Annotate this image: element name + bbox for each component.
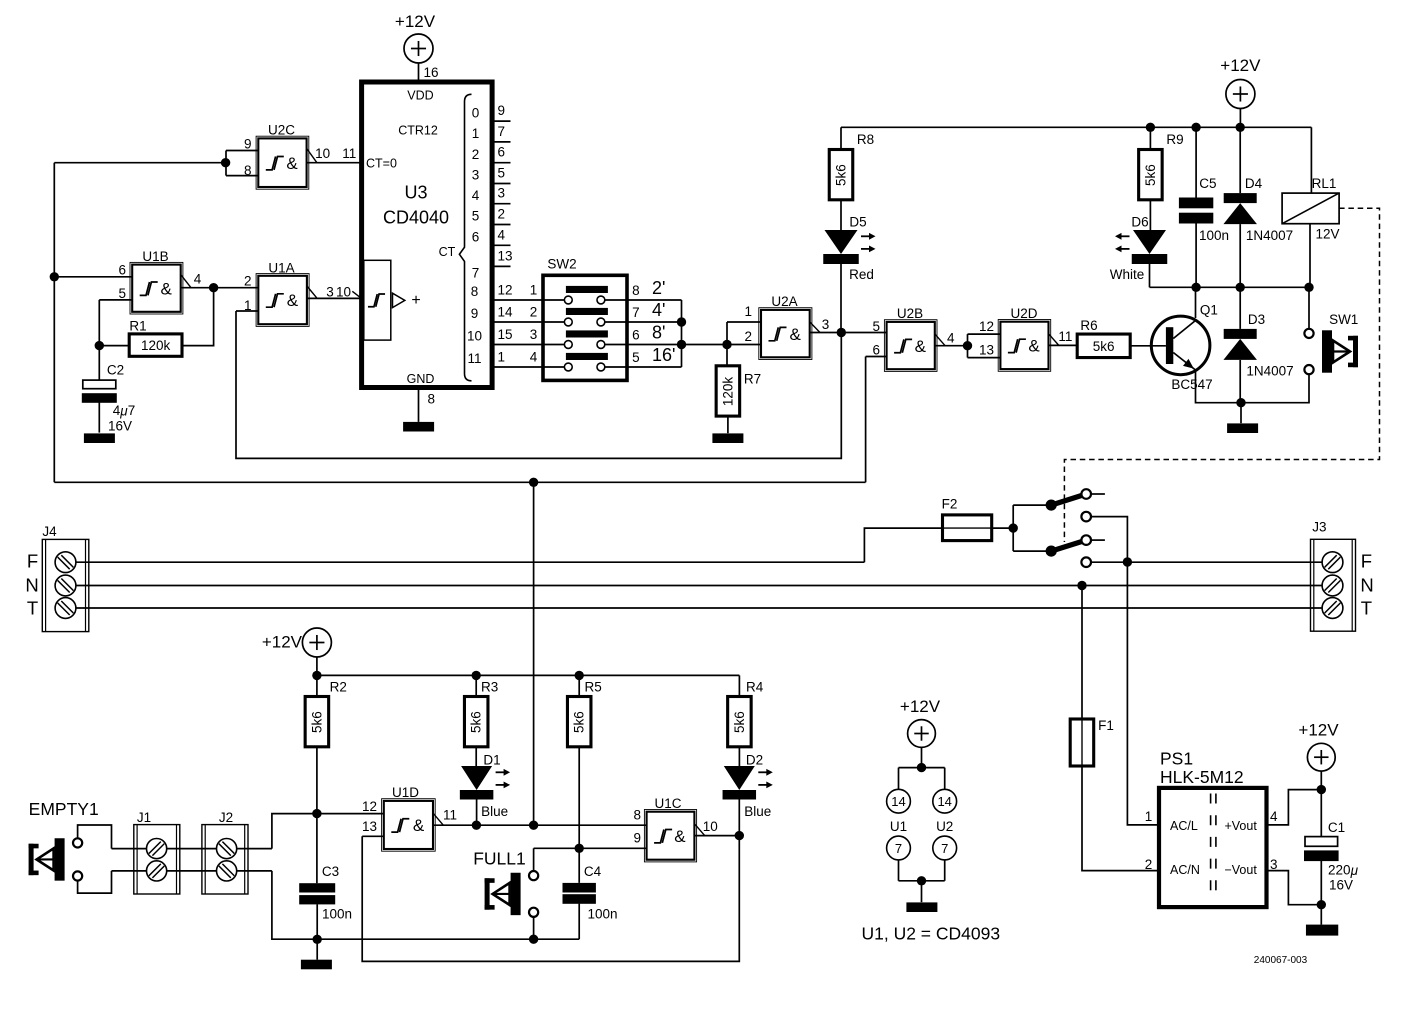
svg-text:16V: 16V [1329, 878, 1353, 893]
svg-text:&: & [286, 154, 298, 173]
svg-text:R6: R6 [1080, 318, 1097, 333]
svg-text:7: 7 [632, 305, 640, 320]
svg-text:8': 8' [652, 322, 665, 342]
svg-text:100n: 100n [1199, 228, 1229, 243]
svg-text:10: 10 [315, 146, 330, 161]
svg-text:7: 7 [941, 841, 948, 856]
svg-text:CD4040: CD4040 [383, 208, 449, 228]
svg-text:+12V: +12V [262, 633, 303, 652]
svg-text:16': 16' [652, 345, 675, 365]
svg-text:8: 8 [471, 284, 479, 299]
svg-text:D2: D2 [746, 753, 763, 768]
svg-text:U2C: U2C [268, 123, 295, 138]
svg-text:AC/L: AC/L [1170, 819, 1198, 833]
svg-text:GND: GND [407, 372, 435, 386]
svg-text:2': 2' [652, 278, 665, 298]
svg-text:12: 12 [498, 283, 513, 298]
svg-text:5k6: 5k6 [309, 711, 324, 733]
svg-text:4: 4 [472, 188, 480, 203]
svg-text:4: 4 [947, 330, 955, 345]
svg-text:12: 12 [362, 799, 377, 814]
svg-text:D4: D4 [1245, 176, 1263, 191]
svg-text:2: 2 [472, 147, 480, 162]
svg-text:4: 4 [194, 272, 202, 287]
svg-text:5: 5 [872, 319, 880, 334]
svg-text:D1: D1 [483, 753, 500, 768]
svg-text:1: 1 [244, 298, 252, 313]
svg-text:1: 1 [744, 304, 752, 319]
svg-text:&: & [287, 291, 299, 310]
svg-text:&: & [915, 337, 927, 356]
svg-text:9: 9 [498, 103, 506, 118]
svg-text:AC/N: AC/N [1170, 863, 1200, 877]
svg-text:3: 3 [530, 327, 538, 342]
svg-text:U1: U1 [890, 819, 907, 834]
svg-text:2: 2 [744, 329, 752, 344]
svg-text:15: 15 [498, 327, 513, 342]
svg-text:D6: D6 [1131, 214, 1148, 229]
svg-text:7: 7 [895, 841, 902, 856]
svg-text:R4: R4 [746, 679, 764, 694]
svg-text:+: + [411, 292, 420, 309]
svg-text:CT=0: CT=0 [366, 156, 397, 170]
svg-text:3: 3 [1270, 857, 1278, 872]
svg-text:VDD: VDD [407, 89, 433, 103]
svg-text:&: & [1028, 337, 1040, 356]
svg-text:11: 11 [443, 807, 457, 822]
svg-text:16V: 16V [108, 419, 132, 434]
svg-text:6: 6 [498, 145, 506, 160]
svg-text:J4: J4 [42, 524, 57, 539]
svg-text:14: 14 [891, 794, 905, 809]
svg-text:4μ7: 4μ7 [113, 403, 135, 418]
svg-text:6: 6 [872, 343, 880, 358]
svg-text:BC547: BC547 [1171, 377, 1212, 392]
svg-text:U3: U3 [404, 182, 427, 202]
svg-text:5k6: 5k6 [1093, 339, 1115, 354]
svg-text:Blue: Blue [744, 804, 771, 819]
svg-text:2: 2 [498, 207, 506, 222]
svg-text:U1A: U1A [268, 260, 294, 275]
svg-text:White: White [1110, 267, 1145, 282]
svg-text:U1D: U1D [392, 785, 419, 800]
svg-text:CT: CT [439, 245, 456, 259]
svg-text:16: 16 [423, 65, 438, 80]
svg-text:T: T [27, 597, 38, 618]
svg-text:14: 14 [498, 305, 514, 320]
svg-text:C4: C4 [584, 864, 602, 879]
svg-text:PS1: PS1 [1160, 748, 1193, 768]
svg-text:7: 7 [472, 266, 480, 281]
svg-text:U1C: U1C [654, 796, 681, 811]
svg-text:0: 0 [472, 105, 480, 120]
svg-text:120k: 120k [720, 377, 735, 407]
svg-text:−Vout: −Vout [1224, 863, 1257, 877]
svg-text:5k6: 5k6 [572, 711, 587, 733]
svg-text:5k6: 5k6 [834, 164, 849, 186]
svg-text:U2D: U2D [1010, 306, 1037, 321]
svg-text:N: N [25, 575, 38, 596]
svg-text:5k6: 5k6 [732, 711, 747, 733]
svg-text:1N4007: 1N4007 [1246, 364, 1293, 379]
svg-text:U1B: U1B [142, 249, 168, 264]
svg-text:+Vout: +Vout [1224, 819, 1257, 833]
svg-text:120k: 120k [141, 338, 171, 353]
svg-text:Red: Red [849, 267, 874, 282]
svg-text:4: 4 [498, 227, 506, 242]
svg-text:10: 10 [703, 819, 718, 834]
svg-text:8: 8 [428, 392, 436, 407]
svg-text:FULL1: FULL1 [473, 849, 526, 869]
svg-text:U2: U2 [936, 819, 953, 834]
svg-text:13: 13 [979, 343, 994, 358]
svg-text:R8: R8 [857, 132, 874, 147]
svg-text:2: 2 [1145, 857, 1153, 872]
svg-text:5: 5 [632, 350, 640, 365]
svg-text:11: 11 [342, 146, 356, 161]
svg-text:R2: R2 [330, 679, 347, 694]
svg-text:1N4007: 1N4007 [1246, 228, 1293, 243]
svg-text:13: 13 [498, 248, 513, 263]
svg-text:11: 11 [1058, 329, 1072, 344]
svg-text:5k6: 5k6 [469, 711, 484, 733]
svg-text:Blue: Blue [481, 804, 508, 819]
svg-text:4': 4' [652, 300, 665, 320]
svg-text:1: 1 [498, 350, 506, 365]
svg-text:100n: 100n [322, 907, 352, 922]
svg-text:9: 9 [633, 831, 641, 846]
svg-text:13: 13 [362, 819, 377, 834]
svg-text:9: 9 [471, 306, 479, 321]
svg-text:N: N [1360, 575, 1373, 596]
svg-text:1: 1 [1145, 809, 1153, 824]
svg-text:5: 5 [498, 166, 506, 181]
svg-text:7: 7 [498, 124, 506, 139]
svg-text:&: & [790, 325, 802, 344]
svg-text:EMPTY1: EMPTY1 [29, 799, 99, 819]
svg-text:4: 4 [1270, 809, 1278, 824]
svg-text:+12V: +12V [900, 697, 941, 716]
svg-text:240067-003: 240067-003 [1254, 955, 1308, 966]
svg-text:8: 8 [632, 283, 640, 298]
svg-text:6: 6 [118, 263, 126, 278]
svg-text:D5: D5 [849, 214, 866, 229]
svg-text:&: & [161, 279, 173, 298]
svg-text:F: F [1361, 551, 1372, 572]
svg-text:C5: C5 [1199, 176, 1216, 191]
svg-text:C3: C3 [322, 864, 339, 879]
svg-text:100n: 100n [587, 907, 617, 922]
svg-text:R3: R3 [481, 679, 498, 694]
svg-text:2: 2 [530, 305, 538, 320]
svg-text:HLK-5M12: HLK-5M12 [1160, 767, 1244, 787]
svg-text:U2B: U2B [897, 306, 923, 321]
svg-text:F: F [27, 551, 38, 572]
svg-text:14: 14 [937, 794, 951, 809]
svg-text:3: 3 [326, 284, 334, 299]
svg-text:F1: F1 [1098, 718, 1114, 733]
svg-text:T: T [1361, 597, 1372, 618]
svg-text:+12V: +12V [1220, 56, 1261, 75]
svg-text:1: 1 [530, 283, 538, 298]
svg-text:8: 8 [244, 163, 252, 178]
svg-text:+12V: +12V [395, 12, 436, 31]
svg-text:+12V: +12V [1298, 720, 1339, 739]
svg-text:5k6: 5k6 [1143, 164, 1158, 186]
svg-text:5: 5 [118, 286, 126, 301]
svg-text:8: 8 [633, 808, 641, 823]
svg-text:6: 6 [632, 327, 640, 342]
svg-text:&: & [674, 827, 686, 846]
svg-text:RL1: RL1 [1312, 176, 1337, 191]
svg-text:Q1: Q1 [1200, 303, 1218, 318]
svg-text:12V: 12V [1315, 227, 1339, 242]
svg-text:10: 10 [467, 329, 482, 344]
svg-text:F2: F2 [942, 496, 958, 511]
svg-text:R5: R5 [585, 679, 602, 694]
svg-text:SW2: SW2 [547, 257, 576, 272]
svg-text:11: 11 [467, 351, 481, 366]
svg-text:2: 2 [244, 274, 252, 289]
svg-text:C2: C2 [107, 363, 124, 378]
svg-text:R1: R1 [129, 319, 146, 334]
svg-text:3: 3 [472, 168, 480, 183]
svg-text:CTR12: CTR12 [398, 124, 438, 138]
svg-text:SW1: SW1 [1329, 312, 1358, 327]
svg-text:5: 5 [472, 209, 480, 224]
svg-text:3: 3 [822, 317, 830, 332]
svg-text:J3: J3 [1312, 520, 1326, 535]
svg-text:1: 1 [472, 126, 480, 141]
svg-text:R7: R7 [744, 372, 761, 387]
svg-text:9: 9 [244, 136, 252, 151]
svg-text:U2A: U2A [771, 294, 797, 309]
svg-text:J1: J1 [137, 810, 151, 825]
svg-text:12: 12 [979, 319, 994, 334]
svg-text:R9: R9 [1166, 132, 1183, 147]
svg-text:3: 3 [498, 186, 506, 201]
svg-text:C1: C1 [1328, 820, 1345, 835]
svg-text:D3: D3 [1248, 312, 1265, 327]
svg-text:&: & [413, 816, 425, 835]
svg-text:10: 10 [336, 284, 351, 299]
svg-text:220μ: 220μ [1328, 862, 1359, 877]
svg-text:4: 4 [530, 350, 538, 365]
svg-text:6: 6 [472, 230, 480, 245]
svg-text:J2: J2 [219, 810, 233, 825]
svg-text:U1, U2 = CD4093: U1, U2 = CD4093 [861, 924, 1000, 944]
